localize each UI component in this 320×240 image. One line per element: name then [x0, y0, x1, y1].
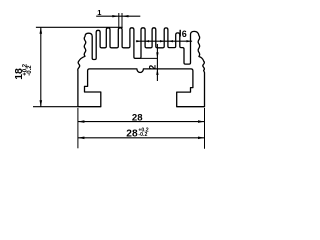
svg-text:-0.2: -0.2	[27, 65, 33, 76]
dim 6 arrow e	[187, 40, 191, 42]
dim 18 extension line top	[36, 26, 123, 28]
dim 1 extension lines	[119, 13, 122, 28]
dim 28tol arrow left	[78, 137, 85, 140]
dim 28tol arrow right	[198, 137, 205, 140]
width extension line left	[77, 108, 79, 148]
dim 28 arrow left	[78, 120, 85, 123]
heatsink profile outline	[78, 28, 205, 107]
dim 6 arrow a	[136, 40, 140, 42]
svg-text:2: 2	[147, 65, 157, 70]
dim 28 arrow right	[198, 120, 205, 123]
dim 6 arrow d	[169, 40, 173, 42]
dim 2 dimension line	[156, 44, 158, 81]
svg-text:6: 6	[182, 29, 187, 39]
dim 2 arrow up	[156, 69, 158, 75]
dim 18 extension line bottom	[33, 106, 78, 108]
dim 18 dimension line	[40, 27, 42, 106]
dim 28tol dimension line	[78, 137, 205, 139]
dim 18 arrow up	[40, 27, 43, 34]
dim 2 arrow down	[156, 52, 158, 58]
dim 28 dimension line	[78, 121, 205, 123]
dim 18 arrow down	[40, 100, 43, 107]
svg-text:28: 28	[126, 129, 138, 140]
dim 6 arrow c	[160, 40, 164, 42]
dim 2 extension line	[135, 57, 158, 59]
dim 6 extension tick	[179, 30, 181, 37]
dim 6 dimension line	[136, 40, 192, 42]
dim 1 arrow right	[112, 15, 119, 17]
width extension line right	[204, 108, 206, 149]
dim 1 dimension line	[96, 15, 140, 17]
svg-text:1: 1	[97, 8, 101, 17]
svg-text:28: 28	[132, 112, 143, 123]
dim 6 arrow b	[145, 40, 149, 42]
svg-text:-0.2: -0.2	[138, 132, 147, 138]
dim 1 arrow left	[122, 15, 129, 17]
